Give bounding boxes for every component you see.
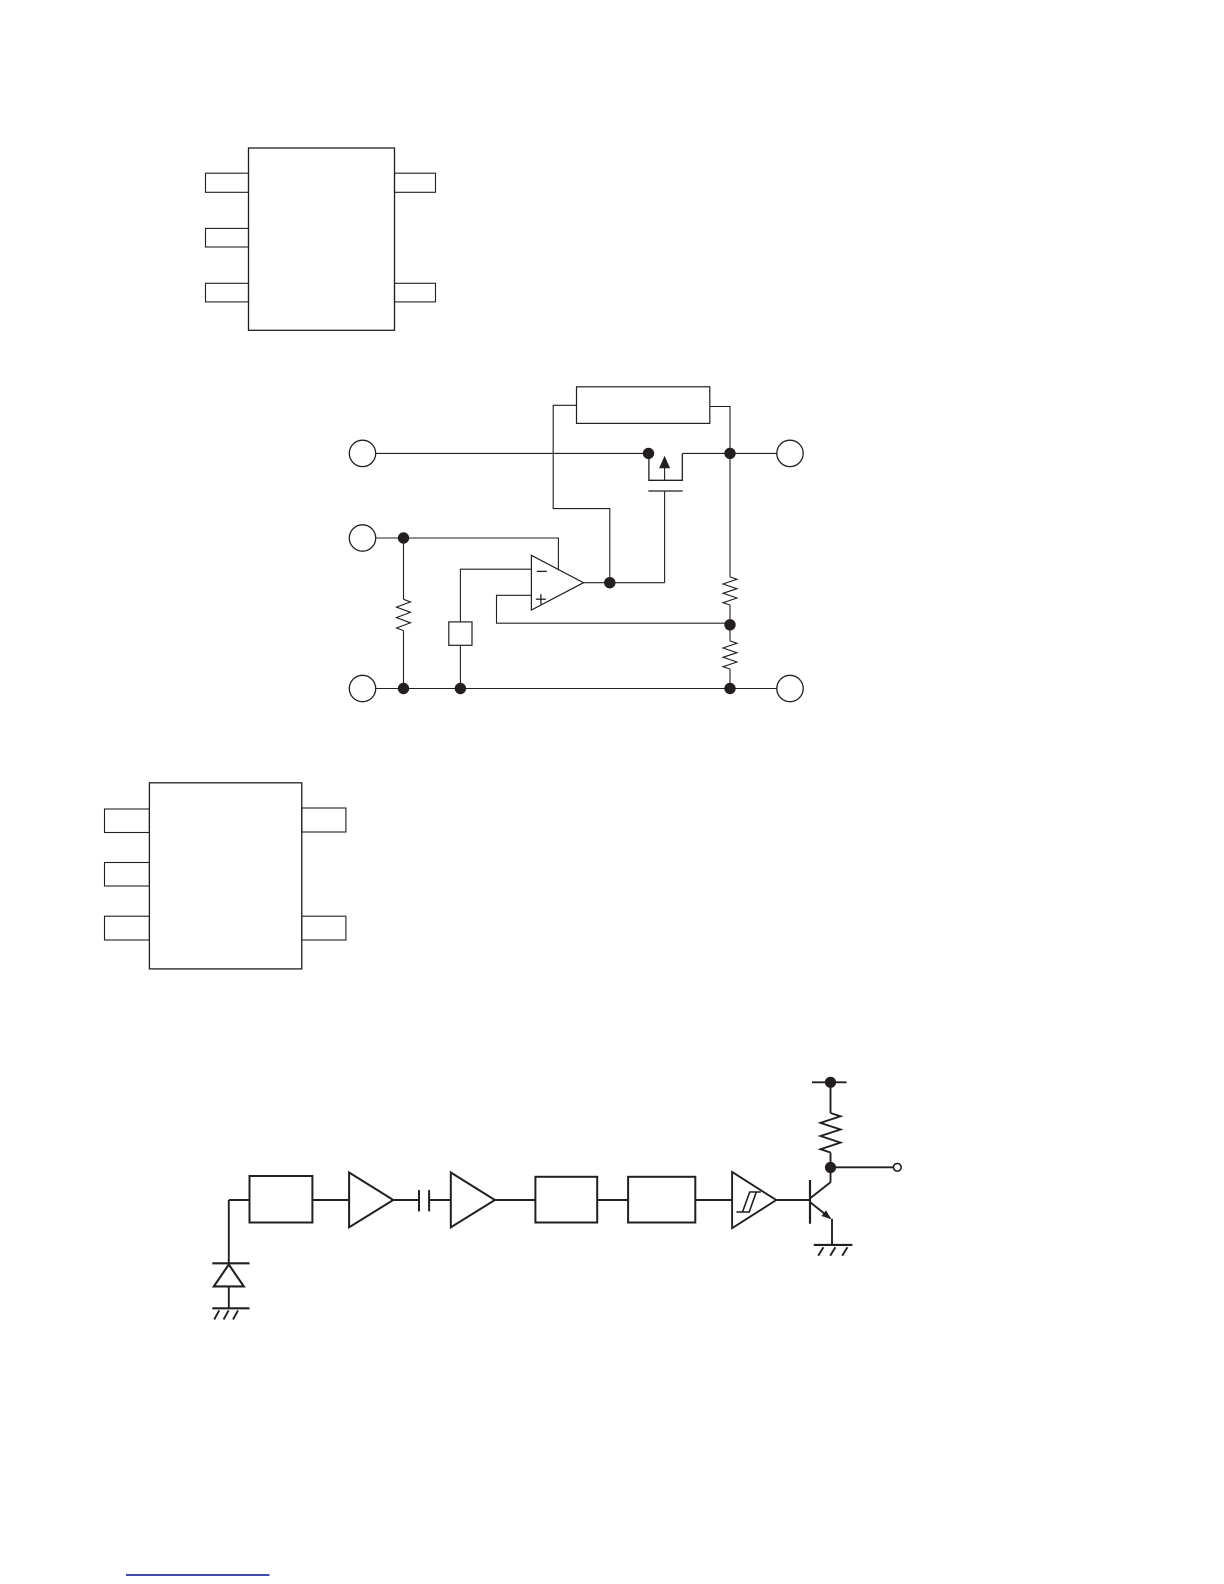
wire Q1 gate to error amp output <box>664 492 666 583</box>
photodiode D1 <box>212 1200 249 1308</box>
wire B2 to B3 <box>597 1199 628 1201</box>
transistor Q1 pass MOSFET channel <box>649 453 682 480</box>
node ground-divider <box>724 683 735 694</box>
terminal GND sense (bottom-right circle) <box>777 675 803 701</box>
ground (emitter) <box>814 1245 853 1256</box>
node ground-VREF <box>455 683 466 694</box>
resistor R4 (pull-up) <box>821 1082 841 1167</box>
block B2 (integrator) <box>535 1177 597 1223</box>
terminal GND (bottom-left circle) <box>349 675 375 701</box>
wire B3 to schmitt trigger <box>695 1199 732 1201</box>
node VCC <box>825 1077 836 1088</box>
node VIN-drain junction <box>643 448 654 459</box>
terminal CE (middle-left circle) <box>349 525 375 551</box>
wire VREF to ground rail <box>459 645 461 688</box>
node feedback tap <box>724 619 735 630</box>
IC package U3 body (SOT-26 top view) <box>149 783 301 969</box>
voltage reference VREF box <box>449 622 472 645</box>
node ground-R1 <box>398 683 409 694</box>
schmitt trigger A3 <box>732 1172 776 1228</box>
block B1 (input stage) <box>250 1176 313 1223</box>
U3 pin 1 <box>105 809 150 833</box>
A3 hysteresis symbol <box>736 1192 760 1212</box>
footer blue rule <box>126 1574 270 1576</box>
node CE junction <box>398 532 409 543</box>
wire top rail left segment <box>376 452 649 454</box>
Q1 body arrow <box>659 456 670 481</box>
U2 minus label <box>537 570 547 572</box>
node collector-output <box>825 1162 836 1173</box>
wire A2 to B2 <box>495 1199 536 1201</box>
U1 pin 2 <box>206 228 249 247</box>
wire ground rail <box>376 688 777 690</box>
node VOUT junction <box>724 448 735 459</box>
terminal VOUT (top-right circle) <box>777 440 803 466</box>
U3 pin 3 <box>105 916 150 940</box>
U1 pin 5 <box>395 173 436 192</box>
U3 pin 2 <box>105 863 150 887</box>
VCC supply stub <box>812 1081 847 1083</box>
terminal VIN (top-left circle) <box>349 440 375 466</box>
block B3 (comparator stage) <box>628 1177 695 1223</box>
U1 pin 1 <box>206 173 249 192</box>
op-amp U2 error amplifier <box>531 555 583 610</box>
output terminal circle <box>893 1163 901 1171</box>
amplifier A2 <box>451 1173 495 1228</box>
wire top rail right segment <box>682 452 777 454</box>
amplifier A1 <box>349 1173 393 1228</box>
U2 plus label <box>536 594 546 604</box>
wire D1 to amplifier block <box>229 1199 250 1201</box>
wire CE rail <box>376 538 559 570</box>
IC package U1 body (SOT-25 top view) <box>249 148 395 330</box>
wire B1 to A1 <box>312 1199 349 1201</box>
wire non-inverting input to divider tap <box>497 595 731 623</box>
resistor R1 (left bleed) <box>397 538 411 689</box>
wire op-amp output to gate <box>584 582 665 584</box>
wire C1 to A2 <box>430 1199 451 1201</box>
node op-amp output <box>604 577 615 588</box>
Q1 gate plate <box>648 490 682 492</box>
wire Q2 collector <box>830 1168 832 1183</box>
wire Q2 emitter to ground <box>831 1219 833 1245</box>
wire inverting input to reference <box>460 569 531 622</box>
U3 pin 4 <box>302 916 346 940</box>
U1 pin 4 <box>395 283 436 302</box>
ground (photodiode) <box>212 1308 249 1319</box>
wire box left to op-amp output <box>553 405 610 582</box>
wire A1 to C1 <box>393 1199 418 1201</box>
transistor Q2 (NPN output) <box>810 1180 831 1224</box>
wire A3 to Q2 base <box>776 1199 810 1201</box>
block protection box <box>577 387 710 424</box>
U3 pin 6 <box>302 808 346 832</box>
wire box right to VOUT rail <box>710 407 730 454</box>
resistor R2 (divider upper) <box>723 453 737 624</box>
resistor R3 (divider lower) <box>723 625 737 689</box>
U1 pin 3 <box>206 283 249 302</box>
capacitor C1 <box>419 1190 429 1211</box>
wire output <box>831 1166 894 1168</box>
